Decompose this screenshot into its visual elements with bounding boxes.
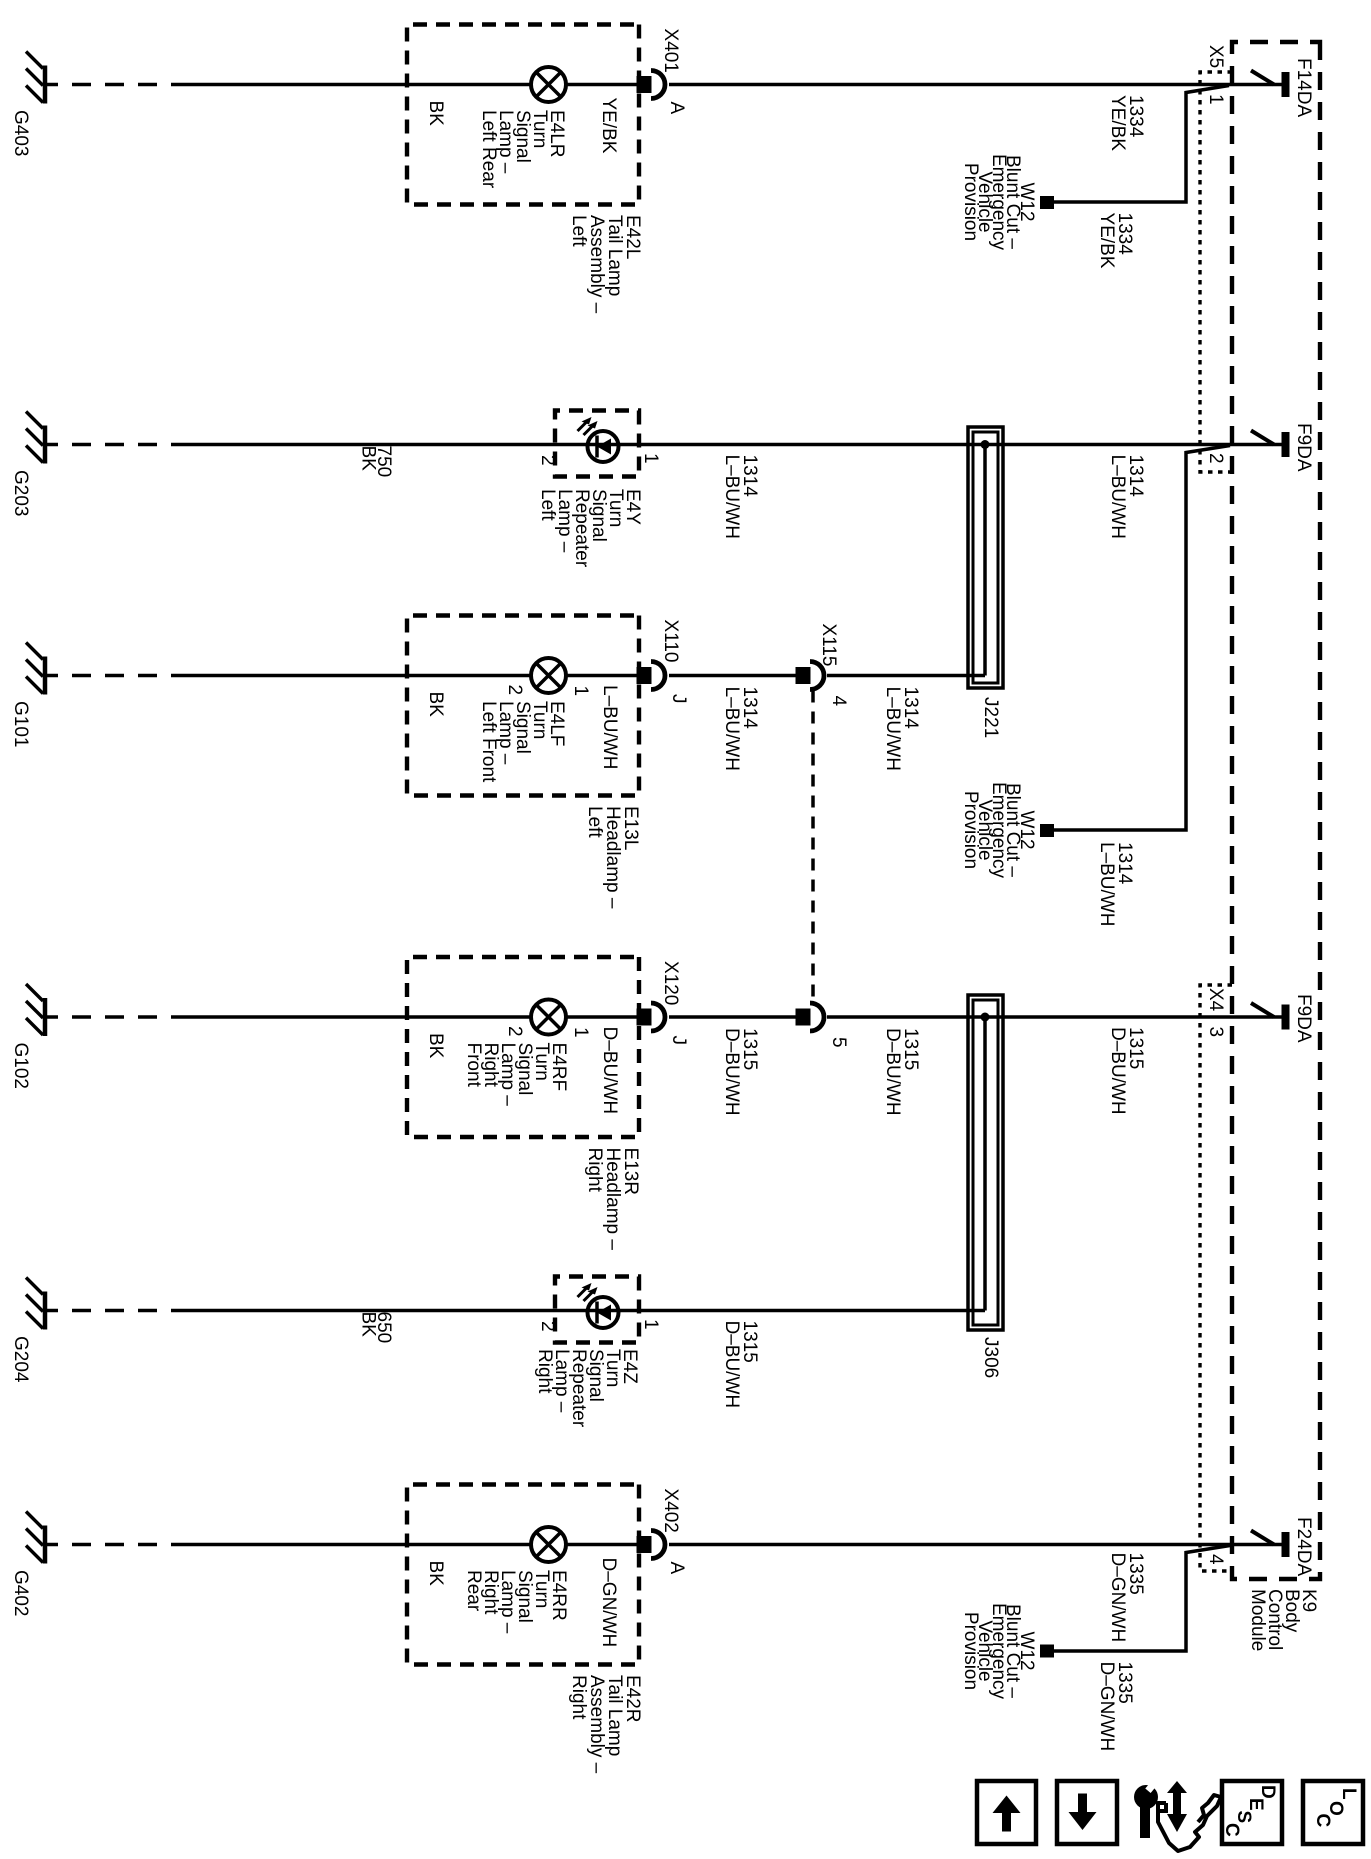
svg-text:YE/BK: YE/BK — [1096, 213, 1117, 269]
svg-text:G101: G101 — [10, 701, 31, 747]
splice pack J306 — [968, 995, 1003, 1330]
pin number 3 — [1205, 1027, 1226, 1038]
svg-text:BK: BK — [425, 101, 446, 127]
svg-text:3: 3 — [1205, 1027, 1226, 1038]
svg-text:X110: X110 — [660, 620, 681, 663]
wire branch to W12 (row6) — [1054, 1546, 1230, 1652]
label W12 Blunt Cut - Emergency Vehicle Provision — [960, 154, 1037, 251]
svg-text:X115: X115 — [818, 624, 839, 667]
svg-text:BK: BK — [358, 1312, 379, 1338]
svg-text:1: 1 — [570, 686, 591, 697]
pin letter A — [666, 102, 687, 115]
wire BK lamp to ground G101 — [190, 674, 531, 678]
wire label 1314 L&#8211;BU/WH — [1096, 842, 1135, 926]
LED lamp E4Z — [578, 1283, 619, 1328]
wire BK lamp to ground G402 — [190, 1543, 531, 1547]
wire label YE/BK — [598, 98, 619, 154]
blunt cut terminal W12 row2 — [1040, 824, 1054, 837]
svg-text:Rear: Rear — [463, 1570, 484, 1612]
wire dashed to ground G402 — [45, 1543, 190, 1547]
svg-text:D–BU/WH: D–BU/WH — [721, 1028, 742, 1116]
label G101 — [10, 701, 31, 747]
inline connector X115 pin 5 — [796, 1003, 825, 1031]
svg-text:Left: Left — [537, 489, 558, 521]
svg-text:BK: BK — [425, 1561, 446, 1587]
wire 1315 D-BU/WH from BCM pin 3 through J306 to X115 — [827, 1015, 1285, 1019]
component dashed box E42R Tail Lamp Assembly - Right — [407, 1485, 639, 1665]
svg-text:2: 2 — [537, 455, 558, 466]
component dashed box E13R Headlamp - Right — [407, 957, 639, 1137]
wire YE/BK X401 to lamp E4LR — [566, 83, 651, 87]
svg-text:Left: Left — [584, 806, 605, 838]
wire label 1315 D&#8211;BU/WH — [721, 1321, 760, 1409]
svg-text:5: 5 — [828, 1037, 849, 1048]
svg-text:F9DA: F9DA — [1293, 423, 1314, 472]
svg-text:J221: J221 — [980, 697, 1001, 738]
wire label 1315 D&#8211;BU/WH — [1107, 1027, 1146, 1115]
pin number 2 — [1205, 453, 1226, 464]
pin number 2 — [537, 1321, 558, 1332]
LED lamp E4Y — [578, 417, 619, 462]
wire dashed to ground G101 — [45, 674, 190, 678]
wire dashed to ground G203 — [45, 443, 190, 447]
svg-text:X120: X120 — [660, 961, 681, 1005]
svg-text:J: J — [668, 1036, 689, 1046]
svg-text:BK: BK — [425, 1033, 446, 1059]
label E4LR Turn Signal Lamp - Left Rear — [478, 110, 567, 189]
wire X402 to lamp E4RR — [566, 1543, 651, 1547]
svg-text:L–BU/WH: L–BU/WH — [1107, 455, 1128, 539]
svg-text:L–BU/WH: L–BU/WH — [721, 687, 742, 771]
svg-text:E: E — [1245, 1798, 1266, 1811]
svg-text:D–GN/WH: D–GN/WH — [1107, 1553, 1128, 1643]
svg-text:2: 2 — [504, 685, 525, 696]
label E42L Tail Lamp Assembly - Left — [568, 215, 643, 314]
wire label BK — [425, 1033, 446, 1059]
svg-text:1: 1 — [570, 1027, 591, 1038]
svg-text:D–BU/WH: D–BU/WH — [882, 1028, 903, 1116]
svg-text:BK: BK — [358, 446, 379, 472]
wire label 1334 YE/BK — [1096, 213, 1135, 269]
connector X4 dashed strip — [1200, 985, 1232, 1571]
label E4RF Turn Signal Lamp - Right Front — [463, 1043, 569, 1107]
svg-text:L–BU/WH: L–BU/WH — [1096, 842, 1117, 926]
svg-text:L–BU/WH: L–BU/WH — [599, 685, 620, 769]
module pin 3 terminal F9DA — [1251, 1003, 1286, 1030]
wire 1315 D-BU/WH from J306 to E4Z — [190, 1309, 985, 1313]
module K9 label — [1247, 1589, 1319, 1651]
pin number 5 — [828, 1037, 849, 1048]
svg-text:D–BU/WH: D–BU/WH — [721, 1321, 742, 1409]
svg-text:G102: G102 — [10, 1043, 31, 1089]
wire dashed to ground G403 — [45, 83, 190, 87]
wire branch to W12 (row1) — [1054, 86, 1229, 203]
svg-text:Right: Right — [584, 1148, 605, 1193]
label F24DA — [1293, 1517, 1314, 1576]
label E4Z Turn Signal Repeater Lamp - Right — [534, 1349, 640, 1428]
svg-text:1: 1 — [640, 1319, 661, 1330]
svg-text:C: C — [1312, 1814, 1333, 1828]
svg-text:D–GN/WH: D–GN/WH — [1096, 1662, 1117, 1752]
pin number 1 — [570, 1027, 591, 1038]
label X115 — [818, 624, 839, 667]
wire label 1335 D&#8211;GN/WH — [1107, 1553, 1146, 1643]
inline connector X402 — [637, 1531, 666, 1559]
svg-text:2: 2 — [504, 1026, 525, 1037]
label W12 Blunt Cut - Emergency Vehicle Provision — [960, 1603, 1037, 1700]
label X120 — [660, 961, 681, 1005]
inline connector X115 — [796, 662, 825, 690]
svg-text:YE/BK: YE/BK — [1107, 95, 1128, 151]
blunt cut terminal W12 row1 — [1040, 196, 1054, 209]
svg-text:S: S — [1233, 1811, 1254, 1824]
icon box: page down arrow — [1057, 1781, 1117, 1844]
label F14DA — [1293, 58, 1314, 117]
svg-text:Left Rear: Left Rear — [478, 110, 499, 189]
label G102 — [10, 1043, 31, 1089]
svg-text:Left: Left — [568, 215, 589, 247]
icon box: page up arrow — [977, 1781, 1036, 1844]
svg-text:2: 2 — [1205, 453, 1226, 464]
pin number 1 — [640, 453, 661, 464]
svg-text:A: A — [666, 1562, 687, 1575]
svg-text:J: J — [668, 694, 689, 704]
label J221 — [980, 697, 1001, 738]
wire BK lamp to ground G403 — [190, 83, 531, 87]
icon box: DESC — [1221, 1781, 1282, 1844]
label E42R Tail Lamp Assembly - Right — [568, 1675, 643, 1774]
label G204 — [10, 1336, 31, 1383]
ground G204 — [26, 1278, 45, 1330]
connector X5 dashed strip — [1200, 72, 1232, 472]
svg-text:D–GN/WH: D–GN/WH — [598, 1558, 619, 1648]
junction dot J221 — [981, 440, 990, 449]
wire label 650 BK — [358, 1312, 395, 1344]
pin letter J — [668, 1036, 689, 1046]
svg-text:Module: Module — [1247, 1589, 1268, 1651]
module K9 Body Control Module dashed box — [1232, 42, 1320, 1579]
wire label 1314 L&#8211;BU/WH — [721, 455, 760, 539]
svg-text:G403: G403 — [10, 110, 31, 156]
wire label D-GN/WH — [598, 1558, 619, 1648]
label G203 — [10, 470, 31, 516]
svg-text:X402: X402 — [660, 1489, 681, 1533]
wire label 1334 YE/BK — [1107, 95, 1146, 151]
svg-text:L: L — [1338, 1788, 1359, 1800]
svg-text:4: 4 — [828, 696, 849, 707]
wire label 750 BK — [358, 446, 395, 478]
label F9DA — [1293, 423, 1314, 472]
svg-text:G402: G402 — [10, 1570, 31, 1616]
label E4LF Turn Signal Lamp - Left Front — [478, 701, 567, 783]
connector X5 label — [1205, 45, 1226, 68]
ground G102 — [26, 984, 45, 1036]
component dashed box E4Y Turn Signal Repeater Lamp - Left — [555, 411, 639, 477]
label G403 — [10, 110, 31, 156]
label X110 — [660, 620, 681, 663]
wire BK lamp to ground G102 — [190, 1015, 531, 1019]
label W12 Blunt Cut - Emergency Vehicle Provision — [960, 782, 1037, 879]
wire X120 to lamp E4RF — [566, 1015, 651, 1019]
svg-text:D–BU/WH: D–BU/WH — [1107, 1027, 1128, 1115]
svg-text:F9DA: F9DA — [1293, 994, 1314, 1043]
label G402 — [10, 1570, 31, 1616]
label E13L Headlamp - Left — [584, 806, 641, 909]
svg-text:1: 1 — [1205, 94, 1226, 105]
wire label 1335 D&#8211;GN/WH — [1096, 1662, 1135, 1752]
lamp E4LF (circle-X bulb) — [531, 658, 566, 693]
svg-text:D–BU/WH: D–BU/WH — [599, 1027, 620, 1115]
inline connector X401 — [637, 71, 666, 99]
inline connector X110 — [637, 662, 666, 690]
icon box: LOC — [1303, 1781, 1363, 1844]
wire label 1314 L&#8211;BU/WH — [721, 687, 760, 771]
pin number 4 — [828, 696, 849, 707]
icon: repair tool (wrench with arrows) — [1134, 1780, 1221, 1851]
wire 1314 L-BU/WH from J221 to X115 — [827, 674, 985, 678]
svg-text:Provision: Provision — [960, 163, 981, 241]
lamp E4RF (circle-X bulb) — [531, 1000, 566, 1035]
module pin 1 terminal F14DA — [1251, 71, 1286, 98]
wire label 1315 D&#8211;BU/WH — [721, 1028, 760, 1116]
label E13R Headlamp - Right — [584, 1148, 641, 1251]
wire dashed to ground G102 — [45, 1015, 190, 1019]
label E4Y Turn Signal Repeater Lamp - Left — [537, 489, 643, 568]
svg-text:A: A — [666, 102, 687, 115]
connector X4 label — [1205, 988, 1226, 1012]
junction dot J306 — [981, 1013, 990, 1022]
component dashed box E13L Headlamp - Left — [407, 616, 639, 796]
wire X115 to X110 — [669, 674, 810, 678]
pin number 4 — [1205, 1554, 1226, 1565]
J306 internal bus — [983, 1017, 987, 1311]
wire label BK — [425, 692, 446, 718]
svg-text:Provision: Provision — [960, 791, 981, 869]
label X401 — [660, 29, 681, 73]
wire label BK — [425, 1561, 446, 1587]
lamp E4LR (circle-X bulb) — [531, 67, 566, 102]
ground G403 — [26, 52, 45, 104]
svg-text:X4: X4 — [1205, 988, 1226, 1012]
wire 1314 L-BU/WH from BCM pin 2 through J221 to E4Y — [190, 443, 1285, 447]
ground G402 — [26, 1512, 45, 1564]
label J306 — [980, 1337, 1001, 1378]
module pin 2 terminal F9DA — [1251, 431, 1286, 458]
wire label L-BU/WH — [599, 685, 620, 769]
lamp E4RR (circle-X bulb) — [531, 1527, 566, 1562]
label F9DA — [1293, 994, 1314, 1043]
component dashed box E42L Tail Lamp Assembly - Left — [407, 25, 639, 205]
pin number 1 — [640, 1319, 661, 1330]
connector X115 dashed plane — [811, 691, 815, 1001]
pin letter A — [666, 1562, 687, 1575]
label E4RR Turn Signal Lamp - Right Rear — [463, 1570, 569, 1634]
svg-text:Left Front: Left Front — [478, 701, 499, 783]
pin number 1 — [1205, 94, 1226, 105]
svg-text:X401: X401 — [660, 29, 681, 73]
module pin 4 terminal F24DA — [1251, 1531, 1286, 1558]
wire label 1314 L&#8211;BU/WH — [1107, 455, 1146, 539]
inline connector X120 — [637, 1003, 666, 1031]
svg-text:Right: Right — [534, 1349, 555, 1394]
wire X115 to X120 — [669, 1015, 810, 1019]
pin number 2 — [504, 685, 525, 696]
pin number 2 — [504, 1026, 525, 1037]
component dashed box E4Z Turn Signal Repeater Lamp - Right — [555, 1277, 639, 1343]
svg-text:4: 4 — [1205, 1554, 1226, 1565]
J221 internal bus — [983, 445, 987, 676]
svg-text:Provision: Provision — [960, 1612, 981, 1690]
svg-text:YE/BK: YE/BK — [598, 98, 619, 154]
svg-text:1: 1 — [640, 453, 661, 464]
svg-text:J306: J306 — [980, 1337, 1001, 1378]
svg-text:X5: X5 — [1205, 45, 1226, 68]
pin number 2 — [537, 455, 558, 466]
wire 1334 YE/BK from BCM pin 1 to X401 — [669, 83, 1285, 87]
wire label D-BU/WH — [599, 1027, 620, 1115]
svg-text:C: C — [1221, 1823, 1242, 1837]
pin letter J — [668, 694, 689, 704]
svg-text:D: D — [1257, 1785, 1278, 1799]
wire branch to W12 (row2) — [1054, 446, 1230, 831]
svg-text:G203: G203 — [10, 470, 31, 516]
wire label 1315 D&#8211;BU/WH — [882, 1028, 921, 1116]
svg-text:L–BU/WH: L–BU/WH — [721, 455, 742, 539]
wire label 1314 L&#8211;BU/WH — [882, 687, 921, 771]
svg-text:2: 2 — [537, 1321, 558, 1332]
blunt cut terminal W12 row6 — [1040, 1645, 1054, 1658]
svg-text:L–BU/WH: L–BU/WH — [882, 687, 903, 771]
svg-text:BK: BK — [425, 692, 446, 718]
ground G203 — [26, 412, 45, 464]
pin number 1 — [570, 686, 591, 697]
svg-text:F24DA: F24DA — [1293, 1517, 1314, 1576]
label X402 — [660, 1489, 681, 1533]
svg-text:F14DA: F14DA — [1293, 58, 1314, 117]
ground G101 — [26, 643, 45, 695]
svg-text:Front: Front — [463, 1043, 484, 1088]
splice pack J221 — [968, 427, 1003, 688]
wire 1335 D-GN/WH from BCM pin 4 to X402 — [669, 1543, 1285, 1547]
svg-text:Right: Right — [568, 1675, 589, 1720]
svg-text:G204: G204 — [10, 1336, 31, 1383]
wire dashed to ground G204 — [45, 1309, 190, 1313]
wire label BK — [425, 101, 446, 127]
wire X110 to lamp E4LF — [566, 674, 651, 678]
